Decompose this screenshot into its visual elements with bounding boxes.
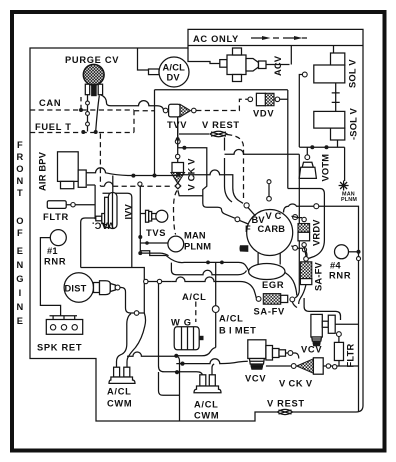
svg-text:RNR: RNR <box>44 257 66 267</box>
wire FLTR to VAC nipple and AIR BPV drop <box>66 185 96 219</box>
port carb top-left <box>244 203 249 208</box>
svg-text:E: E <box>17 246 23 256</box>
AIR BPV component <box>38 151 87 191</box>
cold weather modulator A/CL CWM left <box>107 352 176 408</box>
svg-text:I: I <box>19 288 22 298</box>
carb idle port black <box>240 245 249 252</box>
svg-text:PLNM: PLNM <box>184 242 211 252</box>
distributor DIST <box>64 273 120 302</box>
svg-text:RNR: RNR <box>329 271 351 281</box>
sub-box around VAC valve <box>81 193 132 267</box>
air valve SA-FV horizontal <box>254 294 295 317</box>
svg-text:VCV: VCV <box>301 345 322 355</box>
filter FLTR right <box>334 332 355 368</box>
wire VCV right to rail <box>335 323 358 325</box>
svg-text:CARB: CARB <box>258 224 286 234</box>
diagram boundary <box>30 29 363 421</box>
wire dashed A/CL to bimet <box>195 302 197 323</box>
check valve V CK V bottom funnel <box>279 358 323 389</box>
wire carb mid rail <box>225 150 300 155</box>
solenoid SOL V upper <box>302 53 357 88</box>
wire DIST output <box>120 288 144 314</box>
FRONT OF ENGINE label <box>16 140 23 326</box>
spark retard SPK RET <box>37 320 83 353</box>
wire CAN dashed line <box>30 109 134 111</box>
port MAN PLNM <box>168 231 211 252</box>
wire hub to VCV left <box>176 359 248 364</box>
port carb top <box>268 184 270 197</box>
svg-text:V REST: V REST <box>267 399 305 409</box>
svg-text:B I MET: B I MET <box>219 326 257 336</box>
filter FLTR left <box>43 201 75 222</box>
svg-text:TVS: TVS <box>146 228 166 238</box>
air control valve ACV <box>220 48 283 82</box>
check valve VCK V funnel (upper) <box>171 117 197 191</box>
cold weather modulator A/CL CWM center <box>194 364 221 421</box>
wire SPK side riser to CWM prong <box>159 284 203 376</box>
svg-text:SOL V: SOL V <box>348 59 358 88</box>
wire VCV left to funnel <box>266 353 299 366</box>
wire RNR1 to SPK RET <box>40 238 77 320</box>
wire hump line carb to right rail <box>284 204 314 212</box>
solenoid SOL V lower <box>314 107 359 140</box>
wire rail continues right with hump <box>178 170 243 203</box>
wire solenoid down to VOTM rail <box>337 140 339 147</box>
svg-text:G: G <box>16 274 23 284</box>
purge valve PURGE CV <box>65 55 119 96</box>
wire VOTM rail <box>299 147 344 181</box>
wire DIST rail to SA-FV feed <box>171 277 256 298</box>
wire dashed fuel line down left column <box>99 134 101 187</box>
svg-text:SA-FV: SA-FV <box>254 307 285 317</box>
svg-text:A/CL: A/CL <box>194 400 219 410</box>
wire hub down to bottom boundary <box>176 356 179 421</box>
svg-text:A/CL: A/CL <box>107 387 132 397</box>
wire dashed from diamond down to MAN PLNM <box>173 191 177 235</box>
svg-text:FLTR: FLTR <box>346 344 356 368</box>
wire funnel chain right <box>323 365 358 367</box>
wire left rail above DIST <box>81 268 172 314</box>
wire boundary to ACV feed <box>188 48 220 64</box>
svg-text:VAC.: VAC. <box>92 221 114 231</box>
wire TVV dashed to VDV <box>196 99 248 110</box>
vacuum check valve VCV left <box>245 340 293 384</box>
wire dashed stub purge to CAN <box>80 97 82 110</box>
svg-text:IVV: IVV <box>124 203 134 219</box>
svg-text:F: F <box>17 140 23 150</box>
svg-text:SPK RET: SPK RET <box>37 343 82 353</box>
svg-text:F: F <box>17 228 23 238</box>
wire EGR to riser bundle <box>285 247 306 295</box>
svg-text:A/CL: A/CL <box>163 63 186 73</box>
wire riser to EGR sub rail <box>288 189 325 259</box>
svg-text:F: F <box>245 224 251 234</box>
air valve SA-FV vertical <box>300 257 323 291</box>
vacuum delay VRDV <box>298 217 322 247</box>
svg-text:CWM: CWM <box>107 399 132 409</box>
TVV valve <box>163 104 196 130</box>
wire V REST dashed down to carb port <box>227 135 244 199</box>
svg-text:FUEL T: FUEL T <box>35 122 72 132</box>
vacuum advance VAC / IVV <box>92 193 134 231</box>
wire A/CL riser <box>215 262 217 347</box>
svg-text:SA-FV: SA-FV <box>314 262 324 291</box>
svg-text:VDV: VDV <box>253 109 274 119</box>
svg-text:AIR BPV: AIR BPV <box>38 151 48 191</box>
svg-text:PURGE CV: PURGE CV <box>65 55 119 65</box>
wire hub below W G <box>117 314 132 369</box>
svg-text:N: N <box>17 176 24 186</box>
node MAN PLNM star <box>339 181 358 204</box>
wire between solenoids with ticks <box>332 83 340 112</box>
air cleaner W G barrel <box>171 318 204 350</box>
svg-text:#1: #1 <box>47 246 58 256</box>
VCV right box outline <box>304 298 340 320</box>
wire manifold rail under MAN PLNM <box>166 256 248 271</box>
wire purge left nipple down to FUEL T line with connector circles <box>87 95 89 132</box>
wire TVS stub <box>140 186 168 256</box>
svg-text:EGR: EGR <box>262 280 284 290</box>
relay RNR #1 <box>44 230 66 267</box>
AC ONLY box bottom line <box>188 45 363 47</box>
svg-text:MAN: MAN <box>184 231 206 241</box>
vacuum check valve VCV right <box>301 314 335 354</box>
wire TVV down to rail <box>177 117 179 147</box>
port carb lower right <box>293 245 298 250</box>
wire dashed into VCKV diamond from left <box>100 185 171 187</box>
vacuum motor VOTM <box>299 154 330 182</box>
svg-text:DIST: DIST <box>65 284 87 294</box>
A/CL DV valve U1 <box>138 48 190 87</box>
svg-text:#4: #4 <box>330 261 341 271</box>
svg-text:VCV: VCV <box>245 374 266 384</box>
port carb right <box>293 215 298 220</box>
carburetor CARB <box>245 210 293 280</box>
svg-text:R: R <box>17 152 24 162</box>
wire purge right nipple curving to TVV <box>100 95 163 111</box>
svg-text:CAN: CAN <box>39 98 61 108</box>
svg-text:CWM: CWM <box>194 411 219 421</box>
wire SOL V nipple to left riser <box>299 75 302 148</box>
temperature switch TVS <box>146 210 168 238</box>
svg-text:V CK V: V CK V <box>187 158 197 191</box>
wire lens drop to carb rail <box>225 138 233 203</box>
svg-text:V REST: V REST <box>202 120 240 130</box>
wire VDV right to riser <box>280 90 288 189</box>
svg-text:N: N <box>17 260 24 270</box>
wire long riser x299 <box>295 154 299 298</box>
VDV valve <box>248 93 280 118</box>
svg-text:VOTM: VOTM <box>321 154 331 182</box>
svg-text:V C: V C <box>266 211 282 221</box>
svg-text:O: O <box>16 216 23 226</box>
svg-text:PLNM: PLNM <box>341 197 357 203</box>
wire AIR BPV to junction rail <box>86 168 178 176</box>
wire A/CL DV line down and across <box>155 90 288 176</box>
svg-text:FLTR: FLTR <box>43 212 69 222</box>
port carb left <box>235 217 240 222</box>
wire dashed riser FUEL T to CAN level <box>134 111 155 133</box>
wire from FUEL T junction up to purge <box>96 96 100 132</box>
wire top rail to solenoid <box>333 46 335 54</box>
svg-text:AC ONLY: AC ONLY <box>193 34 239 44</box>
check valve V REST bottom lens <box>278 409 293 414</box>
wire from VCKV junction right and down <box>178 148 235 219</box>
check valve V REST top lens <box>179 131 227 136</box>
svg-text:-SOL V: -SOL V <box>349 107 359 140</box>
relay RNR #4 <box>329 245 361 281</box>
svg-text:VRDV: VRDV <box>312 219 322 246</box>
wire SA-FV down to VCV box <box>292 285 306 308</box>
AC ONLY label with arrows <box>193 34 307 44</box>
wire manifold drop to EGR rail <box>171 263 246 275</box>
svg-text:O: O <box>16 164 23 174</box>
svg-text:W G: W G <box>171 318 192 328</box>
svg-text:A/CL: A/CL <box>182 292 207 302</box>
svg-text:V CK V: V CK V <box>279 379 313 389</box>
wire hub rail to A/CL riser <box>176 348 215 356</box>
svg-text:T: T <box>17 188 23 198</box>
wire FUEL T dashed line <box>30 132 134 134</box>
svg-text:A/CL: A/CL <box>219 314 244 324</box>
svg-text:E: E <box>17 316 23 326</box>
svg-text:ACV: ACV <box>273 55 283 76</box>
svg-text:N: N <box>17 302 24 312</box>
svg-text:DV: DV <box>167 73 181 83</box>
wire ACV outlet to riser <box>266 46 291 65</box>
